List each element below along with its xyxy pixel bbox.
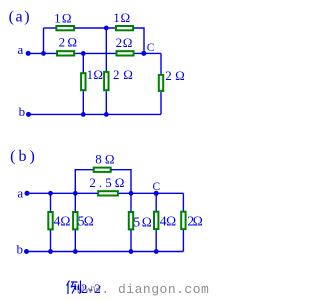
junction dot a-row col1 bbox=[48, 191, 53, 196]
node a dot bbox=[26, 51, 31, 56]
wire: vertical from a-row junction to R5 bbox=[82, 53, 84, 73]
junction dot b-row col3 bbox=[129, 249, 134, 254]
svg-text:5Ω: 5Ω bbox=[133, 214, 151, 229]
resistor R10 4ohm vertical bbox=[48, 212, 52, 229]
resistor R8 8ohm bbox=[94, 168, 111, 172]
wire: a-row segment 2 bbox=[75, 52, 116, 54]
junction dot a-row col2 bbox=[73, 191, 78, 196]
svg-text:b: b bbox=[19, 104, 26, 119]
resistor R9 2.5ohm inline bbox=[98, 191, 118, 195]
wire: below R5 to b-row bbox=[82, 91, 84, 114]
junction dot b-row x=83.3 bbox=[81, 112, 86, 117]
resistor R2 1ohm top-right bbox=[116, 26, 133, 30]
junction dot b-row col2 bbox=[73, 249, 78, 254]
node a dot (b) bbox=[25, 191, 30, 196]
svg-text:2Ω: 2Ω bbox=[113, 67, 133, 82]
resistor R5 1ohm vertical bbox=[81, 73, 85, 90]
wire: a-row segment 3 through node c to right corner bbox=[135, 52, 161, 54]
svg-text:2Ω: 2Ω bbox=[116, 35, 133, 50]
wire: col2 vertical above R11 bbox=[74, 193, 76, 212]
svg-text:2Ω: 2Ω bbox=[165, 68, 185, 83]
svg-text:1Ω: 1Ω bbox=[87, 67, 103, 82]
resistor R6 2ohm vertical bbox=[104, 72, 108, 90]
watermark blue character LI (example) drawn strokes bbox=[67, 281, 81, 295]
wire: col4 vertical below R13 bbox=[155, 229, 157, 251]
svg-text:4Ω: 4Ω bbox=[54, 214, 71, 229]
svg-text:1Ω: 1Ω bbox=[113, 10, 130, 25]
wire: col5 vertical below R14 bbox=[182, 229, 184, 251]
junction dot a-row x=43.5 bbox=[41, 51, 46, 56]
wire: top rail right + corner down bbox=[111, 170, 131, 194]
resistor R14 2ohm vertical bbox=[181, 212, 185, 229]
resistor R4 2ohm a-row right bbox=[117, 51, 134, 55]
wire: (b) top rail with corners down to a-row bbox=[75, 170, 93, 194]
resistor R3 2ohm a-row left bbox=[57, 51, 74, 55]
svg-text:2Ω: 2Ω bbox=[187, 213, 202, 228]
wire: col1 vertical above R10 bbox=[50, 193, 52, 212]
junction dot a-row x=83.3 bbox=[81, 51, 86, 56]
wire: (a) top rail right segment + corner down to node c bbox=[134, 28, 144, 53]
node c dot bbox=[141, 51, 146, 56]
wire: b-row (b) bbox=[27, 251, 184, 253]
svg-text:a: a bbox=[18, 42, 24, 57]
node b dot (b) bbox=[24, 249, 29, 254]
wire: (a) top rail left corner vertical bbox=[43, 28, 45, 53]
svg-text:a: a bbox=[17, 186, 23, 201]
wire: col4 vertical above R13 bbox=[155, 193, 157, 211]
resistor R7 2ohm vertical right bbox=[159, 75, 163, 91]
svg-text:5Ω: 5Ω bbox=[78, 214, 94, 229]
svg-text:(a): (a) bbox=[9, 8, 30, 25]
resistor R11 5ohm vertical bbox=[73, 212, 77, 229]
wire: col3 vertical above R12 bbox=[130, 193, 132, 212]
junction dot a-row col3 bbox=[129, 191, 134, 196]
wire: a-row (b) right of R9 to far corner bbox=[119, 192, 183, 194]
resistor R13 4ohm vertical bbox=[154, 212, 158, 229]
wire: b-row bbox=[29, 113, 162, 115]
junction dot b-row x=106.3 bbox=[104, 112, 109, 117]
svg-text:4Ω: 4Ω bbox=[160, 213, 176, 228]
wire: (a) top rail left segment bbox=[44, 27, 57, 29]
svg-text:C: C bbox=[147, 42, 155, 54]
wire: col1 vertical below R10 bbox=[50, 229, 52, 251]
wire: col5 vertical above R14 (corner from a-row) bbox=[182, 193, 184, 211]
resistor R12 5ohm vertical bbox=[129, 212, 133, 229]
junction dot b-row col1 bbox=[48, 249, 53, 254]
svg-text:b: b bbox=[17, 242, 24, 257]
resistor R1 1ohm top-left bbox=[56, 26, 74, 30]
node c dot (b) bbox=[154, 191, 159, 196]
wire: vertical from top-rail junction crossing a-row down to R6 bbox=[105, 28, 107, 72]
svg-text:(b): (b) bbox=[10, 148, 35, 165]
node b dot bbox=[26, 112, 31, 117]
svg-text:C: C bbox=[153, 181, 161, 193]
wire: col2 vertical below R11 bbox=[74, 229, 76, 251]
wire: vertical x=161 from a-row to R7 bbox=[160, 53, 162, 75]
svg-text:2.5Ω: 2.5Ω bbox=[89, 175, 124, 190]
wire: col3 vertical below R12 bbox=[130, 229, 132, 251]
wire: (a) top rail middle segment bbox=[75, 27, 116, 29]
svg-text:2-2: 2-2 bbox=[81, 282, 101, 296]
wire: a-row (b) left of R9 bbox=[27, 192, 98, 194]
junction dot top rail middle bbox=[104, 26, 109, 31]
wire: below R6 to b-row bbox=[105, 91, 107, 114]
wire: below R7 to b-row bbox=[160, 92, 162, 115]
svg-text:8Ω: 8Ω bbox=[95, 152, 114, 167]
svg-text:1Ω: 1Ω bbox=[54, 11, 71, 26]
junction dot b-row col4 bbox=[154, 249, 159, 254]
wire: a-row segment 1 bbox=[28, 52, 57, 54]
svg-text:2Ω: 2Ω bbox=[59, 35, 77, 50]
